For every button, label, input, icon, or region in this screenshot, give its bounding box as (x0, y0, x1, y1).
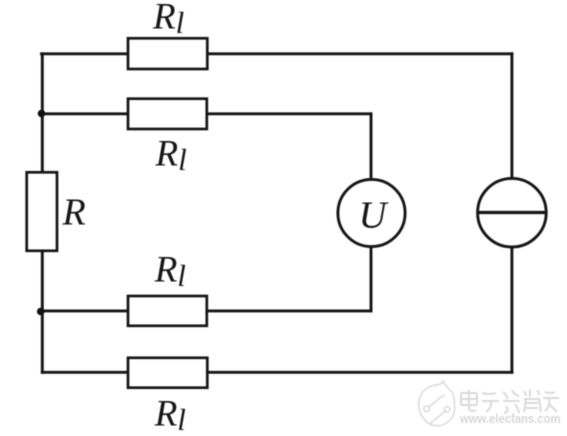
svg-text:Rl: Rl (152, 0, 184, 40)
watermark logo disc (419, 381, 455, 426)
resistor Rl second (box) (128, 99, 207, 129)
svg-text:R: R (62, 192, 86, 234)
current source bar (478, 211, 547, 214)
wire right vertical (510, 54, 513, 373)
svg-text:Rl: Rl (154, 250, 186, 294)
resistor Rl third (box) (128, 296, 207, 326)
wire voltmeter bottom vertical (370, 213, 373, 311)
voltmeter U (circle) (338, 179, 405, 246)
wire voltmeter top vertical (370, 114, 373, 213)
resistor Rl top (box) (128, 38, 207, 69)
watermark brand characters (461, 389, 559, 413)
svg-text:Rl: Rl (155, 134, 187, 178)
svg-text:Rl: Rl (154, 394, 186, 436)
wire sense bottom horizontal (42, 309, 371, 312)
node junction dot lower (37, 308, 45, 316)
resistor R (box) (27, 172, 57, 251)
wire left vertical (41, 54, 44, 373)
wire top horizontal (42, 52, 513, 55)
current source (circle) (478, 178, 547, 247)
resistor Rl bottom (box) (128, 358, 207, 388)
svg-text:U: U (359, 194, 389, 236)
wire bottom horizontal (42, 371, 512, 374)
svg-text:www.elecfans.com: www.elecfans.com (459, 412, 560, 426)
wire sense top horizontal (42, 112, 371, 115)
node junction dot upper (38, 110, 46, 118)
